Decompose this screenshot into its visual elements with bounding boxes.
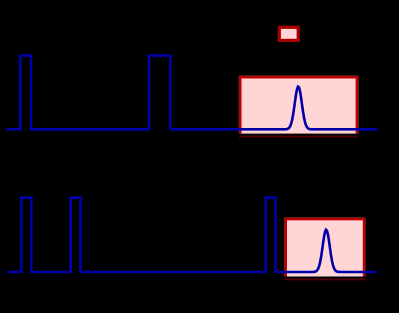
gate window dark bottom border (top trace) (239, 136, 358, 138)
gate window right border (bottom trace) (363, 218, 366, 277)
top signal trace (two rectangular pulses + gaussian peak in gate) (6, 56, 377, 130)
gate window right border (top trace) (356, 76, 359, 134)
gate window top border (bottom trace) (284, 218, 365, 221)
legend gate marker (small red box top) (279, 27, 298, 40)
gate window fill (top trace) (239, 76, 358, 134)
gate window dark bottom border (bottom trace) (284, 278, 365, 280)
bottom signal trace (three rectangular pulses + gaussian peak in gate) (7, 198, 377, 272)
gate window left border (top trace) (239, 76, 242, 134)
gate window top border (top trace) (239, 76, 358, 79)
gate window fill (bottom trace) (284, 218, 365, 277)
gate window left border (bottom trace) (284, 218, 287, 277)
